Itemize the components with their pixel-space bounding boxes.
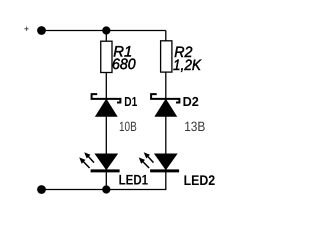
svg-text:D2: D2 <box>183 94 199 109</box>
node + (positive supply label) <box>24 27 28 31</box>
resistor R2 <box>161 41 172 72</box>
svg-text:1,2K: 1,2K <box>173 57 202 74</box>
node terminal dot top-left <box>37 26 46 35</box>
node junction dot top <box>102 26 110 34</box>
svg-text:13В: 13В <box>184 119 205 134</box>
svg-text:LED1: LED1 <box>119 171 149 187</box>
svg-text:680: 680 <box>112 56 136 73</box>
node terminal dot bottom-left <box>37 185 46 194</box>
zener diode D1 <box>92 94 121 116</box>
svg-text:LED2: LED2 <box>184 172 216 188</box>
LED2 light arrow 1 <box>144 152 154 162</box>
svg-text:10В: 10В <box>119 119 137 134</box>
svg-text:D1: D1 <box>124 94 137 109</box>
wire right branch vertical <box>165 31 167 190</box>
resistor R1 <box>101 41 112 72</box>
LED LED1 <box>91 154 120 171</box>
wire left branch vertical <box>105 31 107 190</box>
node junction dot bottom <box>102 185 110 193</box>
LED1 light arrow 2 <box>79 157 89 168</box>
zener diode D2 <box>151 94 179 116</box>
LED LED2 <box>150 154 179 171</box>
wire bottom rail <box>42 189 167 191</box>
wire top rail <box>42 30 166 32</box>
LED1 light arrow 1 <box>84 152 94 162</box>
LED2 light arrow 2 <box>139 157 149 168</box>
